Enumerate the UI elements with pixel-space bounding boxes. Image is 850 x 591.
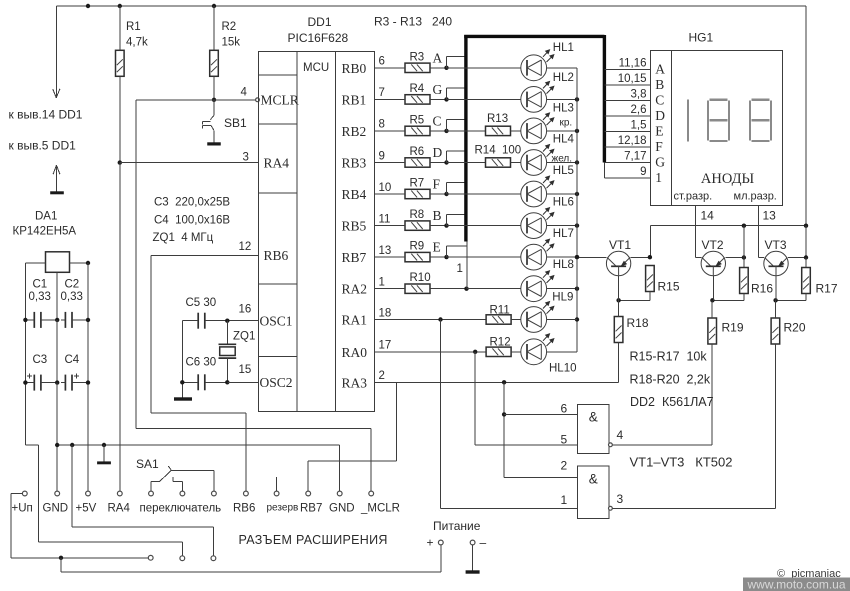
wire RB6 pin line: [151, 254, 258, 256]
wire MCLR line: [136, 99, 256, 101]
wire HG1 segment feed 11,16: [604, 69, 650, 71]
wire R17 top: [805, 258, 807, 268]
junction top wire / R2: [212, 4, 216, 8]
wire pin to R5: [375, 130, 406, 132]
svg-text:13: 13: [763, 209, 777, 223]
svg-text:C: C: [433, 113, 442, 128]
junction LED bus: [575, 97, 579, 101]
wire HL7 cathode to bus: [547, 256, 577, 258]
junction C2 right: [86, 318, 90, 322]
svg-text:MCU: MCU: [303, 62, 329, 74]
svg-text:HG1: HG1: [689, 31, 714, 45]
svg-text:3: 3: [617, 492, 624, 506]
junction C6 left: [180, 380, 184, 384]
junction VT2 base / R19: [710, 298, 714, 302]
resistor R1: [116, 50, 125, 76]
wire RA0 line: [375, 351, 487, 353]
svg-text:5: 5: [561, 433, 568, 447]
svg-text:R13: R13: [487, 113, 508, 125]
svg-text:4,7k: 4,7k: [126, 37, 148, 49]
resistor R10: [405, 284, 430, 293]
svg-text:11: 11: [379, 213, 391, 225]
resistor R9: [405, 252, 430, 261]
svg-text:R3 - R13 240: R3 - R13 240: [374, 15, 452, 29]
wire mid GND rail down: [56, 383, 58, 492]
svg-text:3: 3: [243, 152, 249, 164]
display HG1 box: [651, 51, 783, 206]
junction node B: [444, 223, 448, 227]
wire HG1 segment feed 7,17: [604, 162, 650, 164]
svg-text:17: 17: [379, 340, 392, 352]
svg-text:RB5: RB5: [342, 219, 367, 234]
svg-text:4: 4: [241, 87, 248, 99]
junction C1 left: [23, 318, 27, 322]
svg-text:6: 6: [561, 402, 568, 416]
svg-text:DA1: DA1: [35, 211, 57, 223]
switch plug contact left: [148, 555, 153, 560]
wire VT1 base down: [618, 275, 620, 300]
wire RA3 line: [375, 381, 619, 383]
svg-text:RB7: RB7: [342, 250, 367, 265]
svg-text:E: E: [655, 124, 663, 139]
bundle bus thick left: [464, 35, 467, 242]
wire HG1 segment feed 9: [604, 177, 650, 179]
resistor R5: [405, 126, 430, 135]
wire VT1 emitter: [631, 257, 650, 259]
junction VT1 base / R18: [616, 298, 620, 302]
svg-text:6: 6: [379, 56, 385, 68]
svg-text:&: &: [589, 410, 598, 425]
ground bar power minus: [466, 570, 480, 573]
svg-text:C: C: [655, 93, 664, 108]
svg-text:1: 1: [655, 170, 662, 185]
digit segment 1: [687, 100, 689, 142]
LED HL9: [521, 307, 547, 333]
wire gate2 input 1: [441, 507, 578, 509]
svg-text:VT2: VT2: [702, 238, 724, 252]
wire VT2 collector to pin14: [696, 257, 702, 259]
svg-text:R15-R17 10k: R15-R17 10k: [630, 350, 708, 364]
digit 8 first: [707, 100, 709, 140]
svg-text:HL9: HL9: [552, 292, 573, 304]
svg-text:мл.разр.: мл.разр.: [734, 191, 777, 203]
junction VT3 emitter / R17: [804, 255, 808, 259]
terminal RB7: [306, 491, 311, 496]
svg-text:RA1: RA1: [342, 313, 368, 328]
resistor R16: [740, 268, 749, 294]
wire R16 bottom: [743, 294, 745, 301]
svg-text:к выв.14 DD1: к выв.14 DD1: [9, 108, 83, 122]
terminal +5V: [86, 491, 91, 496]
wire to HL1: [447, 67, 521, 69]
wire R10 to node 1: [430, 288, 467, 290]
resistor R12: [486, 347, 511, 356]
wire OSC2 pin line: [227, 381, 258, 383]
svg-text:R12: R12: [490, 337, 511, 349]
resistor R17: [802, 268, 811, 294]
svg-text:R18: R18: [627, 316, 649, 330]
svg-text:B: B: [655, 77, 664, 92]
LED HL6: [521, 213, 547, 239]
wire HG1 segment feed 10,15: [604, 84, 650, 86]
svg-text:SB1: SB1: [224, 116, 247, 130]
svg-text:9: 9: [640, 166, 646, 178]
junction C1/C2 mid: [55, 318, 59, 322]
wire R2 bottom to MCLR line: [213, 76, 215, 100]
resistor R14: [486, 158, 511, 167]
svg-text:14: 14: [701, 209, 715, 223]
terminal switch common: [212, 491, 217, 496]
svg-text:АНОДЫ: АНОДЫ: [701, 171, 755, 187]
wire HL6 cathode to bus: [547, 225, 577, 227]
svg-text:HL2: HL2: [553, 72, 574, 84]
wire HG1 segment feed 3,8: [604, 100, 650, 102]
svg-text:8: 8: [379, 119, 385, 131]
bundle entry hook G: [446, 88, 448, 99]
wire R20 top: [774, 300, 776, 318]
gate2 inversion bubble: [609, 506, 613, 510]
svg-text:к выв.5 DD1: к выв.5 DD1: [9, 139, 77, 153]
svg-text:RB0: RB0: [342, 61, 367, 76]
wire HG1 pin 13: [758, 205, 760, 257]
junction gate input 6 branch: [502, 412, 506, 416]
wire to HL7: [447, 256, 521, 258]
wire MCLR loop bottom: [136, 428, 371, 430]
svg-text:E: E: [433, 240, 441, 255]
wire to R13: [447, 130, 489, 132]
LED HL8: [521, 276, 547, 302]
svg-text:RA2: RA2: [342, 282, 368, 297]
svg-text:7,17: 7,17: [624, 151, 646, 163]
wire mid rail C1C2 to C3C4: [56, 320, 58, 383]
svg-text:ZQ1 4 МГц: ZQ1 4 МГц: [153, 232, 214, 244]
junction LED bus: [575, 223, 579, 227]
junction C5/ZQ1: [225, 319, 229, 323]
wire to switch plug middle: [39, 541, 183, 543]
wire HG1 segment feed 2,6: [604, 115, 650, 117]
wire HL8 cathode to bus: [547, 288, 577, 290]
resistor R19: [708, 318, 717, 344]
svg-text:C4: C4: [65, 354, 80, 366]
wire VT2 base down: [712, 275, 714, 300]
junction top wire / R1: [118, 4, 122, 8]
wire GND branch to switch plug right: [71, 445, 73, 527]
terminal _MCLR: [369, 491, 374, 496]
svg-text:ст.разр.: ст.разр.: [674, 191, 713, 203]
ground bar of pin5 arrow: [50, 191, 64, 194]
wire R5 to bundle: [430, 130, 447, 132]
svg-text:1: 1: [561, 493, 568, 507]
left +U input rail: [24, 263, 26, 445]
svg-text:10: 10: [379, 182, 392, 194]
svg-text:+5V: +5V: [76, 503, 97, 515]
wire pin to R6: [375, 162, 406, 164]
svg-text:HL7: HL7: [553, 228, 574, 240]
gate1 inversion bubble: [609, 443, 613, 447]
svg-text:кр.: кр.: [560, 118, 573, 129]
svg-text:G: G: [433, 82, 443, 97]
svg-text:OSC2: OSC2: [260, 375, 293, 390]
bundle bus thick top: [464, 35, 604, 38]
terminal RB6: [244, 491, 249, 496]
wire R11 to HL9: [511, 319, 521, 321]
wire HL5 cathode to bus: [547, 193, 577, 195]
svg-text:R4: R4: [410, 83, 425, 95]
svg-text:4: 4: [617, 428, 624, 442]
svg-text:RB1: RB1: [342, 92, 367, 107]
wire +5V right drop: [805, 6, 807, 226]
svg-text:18: 18: [379, 307, 392, 319]
wire gate1 input 6: [504, 413, 577, 415]
svg-text:C3 220,0х25В: C3 220,0х25В: [154, 197, 230, 209]
svg-text:R5: R5: [410, 114, 425, 126]
svg-text:SA1: SA1: [136, 457, 159, 471]
svg-text:КР142ЕН5А: КР142ЕН5А: [13, 226, 77, 238]
svg-text:B: B: [433, 208, 442, 223]
svg-text:OSC1: OSC1: [260, 313, 293, 328]
wire R1 bottom to RA4 rail: [119, 76, 121, 162]
junction GND rail / bus: [55, 443, 59, 447]
svg-text:переключатель: переключатель: [140, 503, 222, 515]
svg-text:Питание: Питание: [433, 519, 481, 533]
svg-text:PIC16F628: PIC16F628: [288, 31, 349, 45]
pin dividers left column: [258, 74, 297, 76]
wire RA1 line: [375, 319, 487, 321]
terminal power minus: [470, 540, 475, 545]
junction node D: [444, 160, 448, 164]
svg-text:0,33: 0,33: [61, 291, 83, 303]
svg-text:DD2 К561ЛА7: DD2 К561ЛА7: [630, 395, 714, 409]
wire to HL2: [447, 98, 521, 100]
junction top wire / left rail: [86, 4, 90, 8]
ground of oscillator: [174, 397, 192, 400]
bundle entry hook D: [446, 151, 448, 162]
svg-text:12,18: 12,18: [618, 135, 647, 147]
ground symbol on GND bus: [102, 443, 106, 447]
wire R7 to bundle: [430, 193, 447, 195]
svg-text:9: 9: [379, 150, 385, 162]
svg-text:–: –: [480, 536, 487, 550]
wire gate1 output to R19: [612, 444, 712, 446]
svg-text:+: +: [427, 536, 434, 550]
wire HL2 cathode to bus: [547, 98, 577, 100]
junction VT2 emitter rail: [742, 224, 746, 228]
bundle entry hook E: [446, 246, 448, 257]
junction node 1: [464, 287, 468, 291]
junction node A: [444, 66, 448, 70]
wire +5V anode line: [650, 225, 806, 227]
junction node C: [444, 129, 448, 133]
bundle entry hook F: [446, 183, 448, 194]
svg-text:HL3: HL3: [553, 102, 574, 114]
terminal switch left: [149, 491, 154, 496]
svg-text:13: 13: [379, 245, 392, 257]
svg-text:RA3: RA3: [342, 375, 368, 390]
junction LED bus: [575, 129, 579, 133]
LED HL3: [521, 118, 547, 144]
svg-text:A: A: [433, 50, 443, 65]
wire to power plus: [60, 558, 62, 572]
svg-text:&: &: [589, 472, 598, 487]
pushbutton SB1: [213, 100, 215, 116]
wire DA1 input lead: [25, 262, 45, 264]
junction LED bus: [575, 192, 579, 196]
top +U supply wire: [56, 5, 806, 7]
LED HL4: [521, 150, 547, 176]
svg-text:GND: GND: [43, 503, 69, 515]
svg-text:VT1: VT1: [609, 238, 631, 252]
junction VT2 emitter / R16: [742, 255, 746, 259]
wire node1 to HL8: [467, 288, 521, 290]
junction LED bus: [575, 160, 579, 164]
resistor R18: [614, 317, 623, 343]
svg-text:F: F: [433, 177, 441, 192]
svg-text:C6 30: C6 30: [186, 357, 217, 369]
junction VT3 base / R20: [773, 298, 777, 302]
wire to R14: [447, 162, 489, 164]
svg-text:R2: R2: [222, 21, 237, 33]
wire RA0 branch down to gate input 5: [474, 352, 476, 445]
wire RB7 to RA3 net: [307, 461, 309, 491]
svg-text:C2: C2: [65, 279, 80, 291]
svg-text:R11: R11: [490, 305, 510, 317]
junction LED bus: [575, 287, 579, 291]
wire R6 to bundle: [430, 162, 447, 164]
bundle entry hook B: [446, 214, 448, 225]
junction C3/C4 mid: [55, 380, 59, 384]
resistor R7: [405, 189, 430, 198]
wire RA4 pin 3 line: [120, 162, 258, 164]
arrow up from ground to DD1 pin5: [56, 166, 58, 192]
svg-text:12: 12: [239, 241, 252, 253]
wire gate1 input 5: [475, 444, 577, 446]
svg-text:R16: R16: [751, 282, 773, 296]
LED anode bus vertical: [576, 68, 578, 352]
junction RA0 branch: [473, 350, 477, 354]
svg-text:HL5: HL5: [553, 165, 574, 177]
wire HL1 cathode to bus: [547, 67, 577, 69]
svg-text:R1: R1: [126, 21, 141, 33]
gate DD2.1: [577, 405, 609, 454]
svg-text:2: 2: [379, 370, 385, 382]
junction C3 left: [23, 380, 27, 384]
svg-text:C3: C3: [33, 354, 48, 366]
wire RA3 branch down: [503, 382, 505, 477]
terminal GND: [55, 491, 60, 496]
svg-text:R10: R10: [410, 272, 431, 284]
junction RA3 / gates branch: [502, 380, 506, 384]
junction LED bus: [575, 255, 579, 259]
wire R15 bottom: [649, 292, 651, 301]
wire HG1 pin 14: [695, 205, 697, 257]
wire HG1 segment feed 12,18: [604, 146, 650, 148]
wire to HL5: [447, 193, 521, 195]
resistor R11: [486, 315, 511, 324]
wire HL9 to bus: [547, 319, 577, 321]
junction node E: [444, 255, 448, 259]
svg-text:1,5: 1,5: [631, 120, 647, 132]
wire RA1 branch down to gate input 1: [440, 320, 442, 509]
+5V rail (DA1 output) down to +5V connector pin: [87, 263, 89, 491]
wire pin to R9: [375, 256, 406, 258]
svg-text:2: 2: [561, 459, 568, 473]
junction node F: [444, 192, 448, 196]
wire VT3 emitter: [788, 257, 806, 259]
terminal +Uп: [22, 491, 27, 496]
svg-text:RB6: RB6: [264, 248, 289, 263]
resistor R3: [405, 63, 430, 72]
LED HL1: [521, 55, 547, 81]
wire R2 top: [213, 6, 215, 50]
terminal резерв: [274, 491, 279, 496]
svg-text:R9: R9: [410, 241, 425, 253]
svg-text:RA0: RA0: [342, 345, 368, 360]
wire pin to R4: [375, 98, 406, 100]
wire step to switch connector: [25, 444, 38, 446]
junction node G: [444, 97, 448, 101]
svg-text:резерв: резерв: [267, 503, 299, 514]
wire MCLR loop down: [135, 100, 137, 429]
wire R14 to HL4: [511, 162, 521, 164]
svg-text:11,16: 11,16: [619, 58, 647, 70]
wire pin to R10: [375, 288, 406, 290]
wire pin to R8: [375, 225, 406, 227]
svg-text:G: G: [655, 155, 665, 170]
wire RB6 loop: [150, 255, 152, 413]
svg-text:RA4: RA4: [108, 503, 131, 515]
left leg C5/C6: [181, 321, 183, 398]
wire pin to R7: [375, 193, 406, 195]
svg-text:РАЗЪЕМ РАСШИРЕНИЯ: РАЗЪЕМ РАСШИРЕНИЯ: [239, 533, 388, 547]
svg-text:+Uп: +Uп: [12, 503, 33, 515]
terminal switch middle: [180, 491, 185, 496]
terminal power plus: [438, 540, 443, 545]
svg-text:15: 15: [239, 364, 252, 376]
bundle thin to display pin 9: [603, 163, 605, 179]
watermark banner: [743, 578, 850, 591]
svg-text:R6: R6: [410, 146, 425, 158]
junction bus HL9: [575, 317, 579, 321]
resistor R15: [646, 266, 655, 292]
svg-text:HL10: HL10: [549, 363, 577, 375]
svg-text:DD1: DD1: [308, 15, 332, 29]
svg-text:RB3: RB3: [342, 156, 367, 171]
svg-text:16: 16: [239, 304, 252, 316]
wire DA1 output lead: [70, 262, 89, 264]
gate DD2.2: [577, 466, 609, 519]
wire power minus to ground: [472, 545, 474, 570]
svg-text:3,8: 3,8: [631, 89, 647, 101]
junction right rail: [804, 224, 808, 228]
wire R4 to bundle: [430, 98, 447, 100]
wire DA1 ground lead: [56, 272, 58, 320]
svg-text:F: F: [655, 139, 663, 154]
svg-text:ZQ1: ZQ1: [233, 331, 255, 343]
resistor R2: [210, 50, 219, 76]
wire R8 to bundle: [430, 225, 447, 227]
wire HG1 segment feed 1,5: [604, 131, 650, 133]
wire R12 to HL10: [511, 351, 521, 353]
ground of SB1: [207, 142, 221, 145]
junction DA1 out / +5V rail: [86, 261, 90, 265]
svg-text:R18-R20 2,2k: R18-R20 2,2k: [630, 373, 711, 387]
bundle entry hook A: [446, 57, 448, 68]
svg-text:R3: R3: [410, 51, 425, 63]
wire VT2 emitter: [725, 257, 744, 259]
junction LED bus / VT1: [575, 255, 579, 259]
GND bus horizontal: [57, 444, 340, 446]
svg-text:R14 100: R14 100: [475, 145, 522, 157]
